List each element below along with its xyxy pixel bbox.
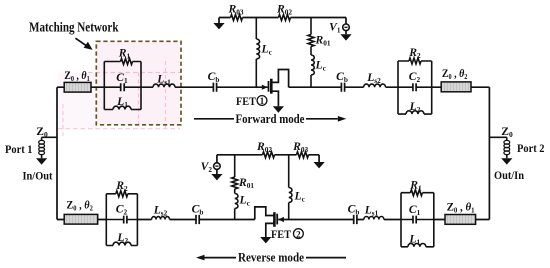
capacitor Cb (top input) [208,70,220,92]
resistor R2 (bottom-left network) [115,179,128,197]
matching network dashed box [96,41,181,125]
pink dashed line horizontal top [88,72,181,74]
transistor Q1 FET1 [262,70,289,107]
svg-text:In/Out: In/Out [23,169,53,183]
resistor R1 (top-left network) [118,47,133,65]
inductor Ls2 (top) [364,71,386,87]
transmission line Z0,theta2 bottom-left [64,199,98,224]
ground (below V2) [211,169,222,180]
resistor R02 (bottom rail) [256,140,275,158]
wire: right bus vertical (Port2 node) [488,87,490,219]
svg-text:FET: FET [236,94,256,108]
wire: left bus vertical (Port1 node) [56,87,58,219]
inductor Lc (FET2 drain bias) [235,189,251,220]
pink highlight wash [58,42,180,129]
voltage source V2 [201,155,221,174]
ground (FET1 source) [273,106,284,112]
pink dashed line vertical right [165,61,167,129]
capacitor C1 (top-left network) [116,71,128,91]
pink dashed line horizontal bottom [58,128,180,130]
svg-text:FET: FET [271,227,291,241]
ground (below V1) [340,31,351,41]
transmission line Z0,theta2 top-right [441,67,471,92]
inductor L1 (top-left network) [113,95,131,110]
reverse mode arrow [196,251,346,265]
wire: FET1 drain to Cb2 [289,86,342,88]
capacitor Cb (bottom-right) [348,203,360,225]
svg-text:Z0 , θ1: Z0 , θ1 [64,69,90,83]
transistor Q2 FET2 [255,207,284,237]
inductor Lc (FET2 gate bias) [289,155,306,220]
inductor L2 (bottom-left network) [113,231,131,246]
pink dashed line vertical mid [138,73,140,130]
resistor R1 (bottom-right network) [409,179,422,196]
forward mode arrow [194,112,346,126]
voltage source V1 [329,18,349,35]
matching network pointer arrow [75,38,92,50]
capacitor Cb (bottom-left) [192,203,204,225]
ground (bottom rail right) [314,155,325,169]
resistor R01 (top, drain bias) [308,18,331,48]
resistor R03 (bottom rail) [292,140,308,158]
svg-text:Z0 , θ1: Z0 , θ1 [447,201,475,215]
svg-text:1: 1 [260,96,265,106]
ground (FET2 source) [260,237,271,243]
inductor Ls1 (top) [153,72,175,87]
inductor Ls2 (bottom) [152,204,170,220]
wire: top main line segments [57,86,489,88]
node: parallel network 3 frame (bottom-left) [106,194,137,246]
svg-text:Z0 , θ2: Z0 , θ2 [66,199,93,213]
transmission line Z0,theta1 top-left [64,69,91,92]
capacitor C2 (top-right network) [409,70,421,91]
ground (top rail left) [213,18,224,30]
resistor R2 (top-right network) [408,46,421,64]
capacitor C1 (bottom-right network) [409,203,421,224]
svg-text:Matching Network: Matching Network [29,20,119,35]
node: parallel network 1 frame (top-left) [104,62,141,110]
port 2 [489,126,544,182]
svg-text:Reverse mode: Reverse mode [238,251,304,265]
bottom bias rail [217,154,319,156]
pink dashed line vertical left [62,104,64,136]
transmission line Z0,theta1 bottom-right [445,201,476,225]
svg-text:Z0 , θ2: Z0 , θ2 [442,67,468,81]
svg-text:Forward mode: Forward mode [236,112,305,126]
label FET 2 [271,227,303,241]
wire: bottom main line segments [57,219,489,221]
resistor R01 (bottom, drain bias) [232,155,255,190]
svg-text:Port 2: Port 2 [517,141,545,155]
node: parallel network 4 frame (bottom-right) [401,193,434,247]
svg-text:Out/In: Out/In [494,168,524,182]
svg-text:Port 1: Port 1 [5,142,33,156]
capacitor C2 (bottom-left network) [116,203,128,224]
inductor L2 (top-right network) [406,100,424,114]
inductor L1 (bottom-right network) [408,233,426,247]
inductor Ls1 (bottom) [364,204,384,220]
top bias rail [219,17,346,19]
label FET 1 [236,94,267,108]
port 1 [5,126,57,182]
resistor R03 (top rail) [227,2,243,20]
inductor Lc (FET1 gate bias) [256,18,272,88]
capacitor Cb (top output) [336,70,348,92]
inductor Lc (FET1 drain bias) [311,47,327,88]
node: parallel network 2 frame (top-right) [398,61,432,114]
svg-text:2: 2 [296,229,301,239]
resistor R02 (top rail) [276,2,292,20]
